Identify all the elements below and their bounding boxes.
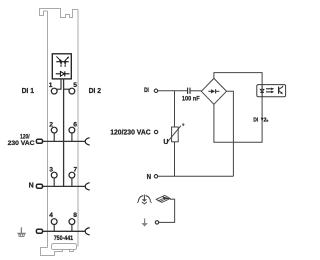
earth pad bbox=[36, 229, 42, 233]
svg-text:1: 1 bbox=[49, 82, 53, 89]
proximity-operation symbol bbox=[137, 195, 151, 204]
wire pin B bus from box down to N wire bbox=[63, 79, 65, 186]
electronics box with status LEDs bbox=[52, 54, 71, 79]
module bottom latch notch bbox=[70, 250, 74, 252]
LED D1 (left, triangle) bbox=[60, 62, 63, 65]
wire bridge right output down to N bbox=[227, 91, 234, 176]
svg-text:N: N bbox=[29, 182, 34, 189]
svg-text:4: 4 bbox=[49, 212, 53, 219]
switch contact terminal bbox=[155, 221, 158, 224]
varistor footnote asterisk bbox=[182, 123, 185, 126]
optocoupler light arrows bbox=[266, 88, 274, 94]
wire bridge bottom to LED return bbox=[214, 97, 262, 142]
120/230 VAC connector socket bbox=[85, 138, 90, 145]
svg-text:750-441: 750-441 bbox=[54, 235, 74, 242]
svg-text:DI 2: DI 2 bbox=[89, 86, 101, 95]
svg-text:8: 8 bbox=[73, 212, 77, 219]
svg-text:5: 5 bbox=[73, 82, 77, 89]
wire pin A from box to terminal 1 bbox=[57, 79, 62, 89]
ground symbol bbox=[17, 227, 27, 236]
LED D1 arrow bbox=[56, 56, 60, 60]
cam/wedge actuator symbol bbox=[156, 195, 170, 202]
actuation down arrow bbox=[141, 219, 147, 227]
N connector socket bbox=[85, 183, 90, 190]
module bottom rail channel bbox=[52, 244, 77, 250]
svg-text:U: U bbox=[163, 139, 168, 146]
varistor branch wire bbox=[174, 91, 176, 127]
svg-text:230 VAC: 230 VAC bbox=[8, 140, 35, 147]
svg-text:DI: DI bbox=[253, 118, 258, 124]
LED common bar bbox=[56, 61, 68, 63]
N field wire bbox=[43, 185, 86, 187]
svg-text:100 nF: 100 nF bbox=[182, 96, 200, 103]
svg-text:N: N bbox=[147, 174, 151, 181]
module body left edge bbox=[47, 11, 49, 248]
optocoupler LED bbox=[261, 85, 263, 90]
earth field wire bbox=[43, 230, 86, 232]
module outline top profile bbox=[40, 9, 79, 18]
DI terminal bbox=[154, 89, 157, 92]
varistor to N wire bbox=[174, 142, 176, 177]
optocoupler phototransistor bbox=[278, 87, 280, 94]
120/230 VAC field wire bbox=[43, 140, 86, 142]
svg-text:120/230 VAC: 120/230 VAC bbox=[110, 130, 151, 137]
diode D3 bbox=[60, 71, 64, 76]
optocoupler U1 box bbox=[257, 85, 286, 97]
svg-text:DI: DI bbox=[144, 87, 149, 94]
capacitor C1 100nF bbox=[187, 88, 189, 94]
svg-text:+: + bbox=[266, 119, 269, 124]
switch contact wire bbox=[159, 199, 175, 222]
varistor RV1 bbox=[172, 127, 179, 142]
DI wire bbox=[158, 90, 187, 92]
LED D2 (right, triangle) bbox=[64, 62, 67, 65]
wire pin B to terminal 5 bbox=[64, 88, 70, 90]
N pad bbox=[36, 184, 42, 188]
wire bridge top to optocoupler bbox=[214, 73, 262, 85]
120/230 VAC terminal (unconnected) bbox=[154, 130, 157, 133]
earth connector socket bbox=[85, 228, 90, 235]
bus arrowhead on wire bbox=[261, 118, 264, 122]
120/230 VAC pad bbox=[36, 139, 42, 143]
module body right edge bbox=[77, 10, 79, 247]
diode D3 wire bbox=[56, 73, 70, 75]
N terminal bbox=[154, 175, 157, 178]
bridge rectifier B1 bbox=[201, 78, 226, 104]
LED D2 arrow bbox=[65, 58, 68, 61]
module bottom foot profile bbox=[41, 248, 63, 256]
N wire bbox=[158, 175, 234, 177]
svg-text:DI 1: DI 1 bbox=[22, 86, 34, 95]
